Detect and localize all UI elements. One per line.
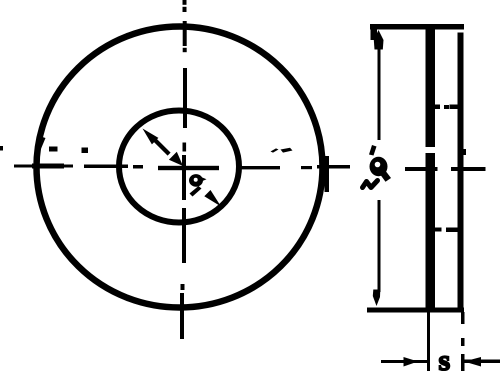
s dimension right line + arrow <box>464 360 500 364</box>
d2 arrow top <box>374 30 384 50</box>
d1 label (rotated d1) <box>189 174 207 196</box>
d1 dimension arrow upper-left <box>143 129 159 145</box>
horizontal centerline (front view) <box>0 137 350 171</box>
d1 dimension arrow lower-right <box>204 190 221 207</box>
side view: right face <box>458 33 464 312</box>
d2 arrow bottom <box>373 290 381 307</box>
s dimension left line + arrow <box>381 360 427 363</box>
side view: left face (thick) <box>426 26 436 147</box>
side view: bottom edge <box>367 308 464 313</box>
vertical centerline (front view) <box>180 0 187 339</box>
d1 dimension line upper segment <box>152 138 170 156</box>
d2 label (rotated d2) <box>363 145 392 188</box>
side view: top edge / extension line <box>370 24 464 30</box>
side view centerline <box>405 167 438 171</box>
washer front view: inner circle (hole d1) <box>119 111 239 223</box>
s dimension: left extension line <box>427 312 430 371</box>
centerline tick at outer circle right <box>325 156 330 192</box>
hole hidden edge dashes (bottom) <box>433 228 442 232</box>
d1 dimension wedge into center <box>169 152 183 166</box>
d2 dimension line <box>378 47 381 140</box>
s dimension: right extension line (broken) <box>461 312 465 324</box>
svg-text:s: s <box>439 344 451 371</box>
washer front view: outer circle d2 <box>37 27 323 308</box>
hole hidden edge dashes (top) <box>433 105 441 110</box>
